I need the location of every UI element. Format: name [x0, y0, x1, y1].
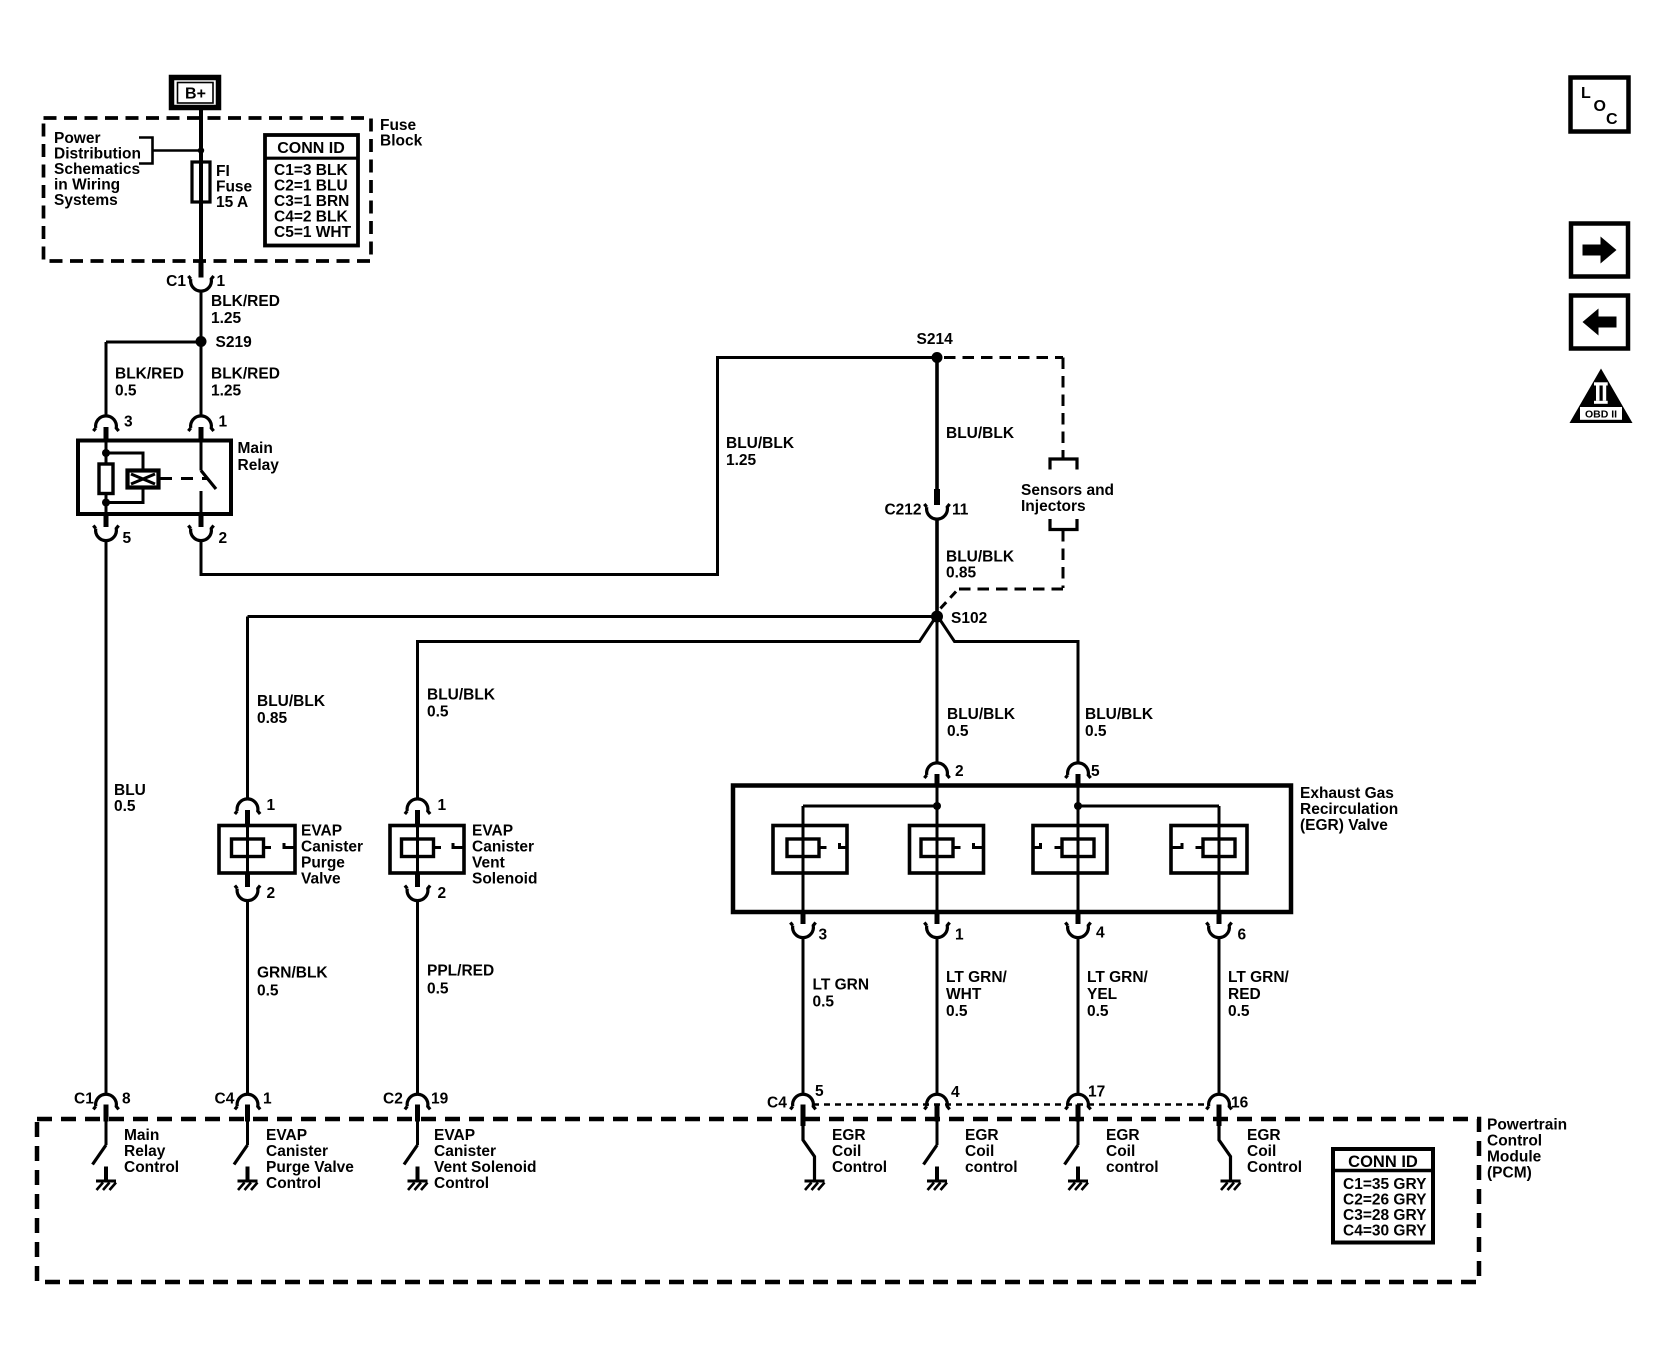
- svg-text:C5=1 WHT: C5=1 WHT: [274, 224, 352, 241]
- svg-text:Recirculation: Recirculation: [1300, 801, 1398, 818]
- svg-text:0.5: 0.5: [813, 994, 835, 1011]
- svg-text:Coil: Coil: [1106, 1143, 1135, 1160]
- svg-text:4: 4: [1096, 925, 1105, 942]
- svg-text:Control: Control: [1247, 1159, 1302, 1176]
- svg-text:3: 3: [819, 927, 828, 944]
- svg-text:4: 4: [951, 1084, 960, 1101]
- svg-text:Distribution: Distribution: [54, 146, 141, 163]
- svg-text:YEL: YEL: [1087, 986, 1117, 1003]
- svg-text:19: 19: [431, 1091, 449, 1108]
- svg-text:C1: C1: [74, 1091, 94, 1108]
- svg-text:WHT: WHT: [946, 986, 982, 1003]
- svg-text:3: 3: [124, 414, 133, 431]
- svg-text:FI: FI: [216, 163, 230, 180]
- svg-text:Canister: Canister: [266, 1143, 328, 1160]
- svg-text:C3=1 BRN: C3=1 BRN: [274, 193, 349, 210]
- svg-text:5: 5: [815, 1083, 824, 1100]
- svg-text:L: L: [1581, 85, 1591, 102]
- svg-text:EGR: EGR: [965, 1127, 999, 1144]
- svg-text:(EGR) Valve: (EGR) Valve: [1300, 817, 1388, 834]
- svg-text:Canister: Canister: [472, 839, 534, 856]
- svg-text:1: 1: [955, 927, 964, 944]
- svg-text:16: 16: [1231, 1095, 1249, 1112]
- svg-text:BLU/BLK: BLU/BLK: [946, 549, 1015, 566]
- svg-text:BLK/RED: BLK/RED: [211, 293, 280, 310]
- svg-text:C1=3 BLK: C1=3 BLK: [274, 162, 348, 179]
- svg-text:Valve: Valve: [301, 871, 341, 888]
- svg-text:EGR: EGR: [832, 1127, 866, 1144]
- svg-text:O: O: [1594, 98, 1606, 115]
- svg-text:C4: C4: [767, 1095, 787, 1112]
- svg-text:Power: Power: [54, 130, 101, 147]
- svg-text:1.25: 1.25: [211, 383, 242, 400]
- svg-text:1: 1: [219, 414, 228, 431]
- svg-text:BLU/BLK: BLU/BLK: [947, 706, 1016, 723]
- svg-text:2: 2: [219, 530, 228, 547]
- svg-text:Main: Main: [238, 440, 273, 457]
- svg-text:GRN/BLK: GRN/BLK: [257, 965, 328, 982]
- svg-text:BLK/RED: BLK/RED: [211, 366, 280, 383]
- svg-text:EVAP: EVAP: [472, 823, 513, 840]
- svg-text:2: 2: [438, 885, 447, 902]
- svg-text:Block: Block: [380, 133, 423, 150]
- svg-text:S219: S219: [216, 334, 253, 351]
- svg-text:Purge Valve: Purge Valve: [266, 1159, 354, 1176]
- svg-text:0.5: 0.5: [427, 981, 449, 998]
- svg-text:8: 8: [122, 1091, 131, 1108]
- svg-text:LT GRN/: LT GRN/: [946, 969, 1008, 986]
- svg-text:17: 17: [1088, 1084, 1105, 1101]
- svg-text:1.25: 1.25: [726, 452, 757, 469]
- svg-text:BLU/BLK: BLU/BLK: [946, 425, 1015, 442]
- svg-text:1: 1: [267, 797, 276, 814]
- svg-text:C3=28 GRY: C3=28 GRY: [1343, 1207, 1427, 1224]
- svg-text:LT GRN/: LT GRN/: [1228, 969, 1290, 986]
- svg-text:Canister: Canister: [301, 839, 363, 856]
- svg-text:Coil: Coil: [832, 1143, 861, 1160]
- svg-text:BLK/RED: BLK/RED: [115, 366, 184, 383]
- svg-text:0.85: 0.85: [946, 565, 977, 582]
- svg-text:LT GRN/: LT GRN/: [1087, 969, 1149, 986]
- svg-text:EVAP: EVAP: [434, 1127, 475, 1144]
- svg-text:5: 5: [1091, 763, 1100, 780]
- svg-text:0.5: 0.5: [1085, 723, 1107, 740]
- svg-text:Canister: Canister: [434, 1143, 496, 1160]
- svg-text:control: control: [965, 1159, 1018, 1176]
- svg-text:C: C: [1606, 111, 1618, 128]
- svg-text:0.5: 0.5: [114, 798, 136, 815]
- svg-text:OBD II: OBD II: [1585, 409, 1617, 421]
- svg-text:Exhaust Gas: Exhaust Gas: [1300, 785, 1394, 802]
- svg-text:BLU/BLK: BLU/BLK: [726, 435, 795, 452]
- svg-text:Relay: Relay: [124, 1143, 166, 1160]
- svg-text:Fuse: Fuse: [380, 117, 417, 134]
- svg-text:(PCM): (PCM): [1487, 1165, 1532, 1182]
- svg-text:11: 11: [952, 502, 969, 519]
- svg-text:Control: Control: [1487, 1133, 1542, 1150]
- svg-text:0.5: 0.5: [257, 983, 279, 1000]
- svg-text:Control: Control: [266, 1175, 321, 1192]
- svg-text:0.5: 0.5: [947, 723, 969, 740]
- svg-text:1: 1: [438, 797, 447, 814]
- svg-text:0.5: 0.5: [946, 1003, 968, 1020]
- svg-text:CONN ID: CONN ID: [1348, 1153, 1418, 1171]
- svg-text:C2=1 BLU: C2=1 BLU: [274, 178, 348, 195]
- svg-text:EVAP: EVAP: [301, 823, 342, 840]
- svg-text:1: 1: [263, 1091, 272, 1108]
- svg-text:Vent: Vent: [472, 855, 505, 872]
- svg-text:Main: Main: [124, 1127, 159, 1144]
- svg-text:EGR: EGR: [1247, 1127, 1281, 1144]
- svg-text:0.5: 0.5: [1087, 1003, 1109, 1020]
- svg-text:BLU: BLU: [114, 782, 146, 799]
- svg-text:BLU/BLK: BLU/BLK: [257, 693, 326, 710]
- svg-text:EVAP: EVAP: [266, 1127, 307, 1144]
- svg-text:C1=35 GRY: C1=35 GRY: [1343, 1176, 1427, 1193]
- svg-text:2: 2: [267, 885, 276, 902]
- svg-text:B+: B+: [185, 86, 206, 103]
- svg-text:RED: RED: [1228, 986, 1261, 1003]
- svg-text:2: 2: [955, 763, 964, 780]
- svg-text:0.5: 0.5: [1228, 1003, 1250, 1020]
- svg-text:LT GRN: LT GRN: [813, 977, 870, 994]
- svg-text:Systems: Systems: [54, 192, 118, 209]
- svg-text:0.85: 0.85: [257, 710, 288, 727]
- svg-text:Fuse: Fuse: [216, 179, 253, 196]
- svg-text:C2: C2: [383, 1091, 403, 1108]
- svg-text:0.5: 0.5: [115, 383, 137, 400]
- svg-text:Injectors: Injectors: [1021, 498, 1086, 515]
- svg-text:Vent Solenoid: Vent Solenoid: [434, 1159, 536, 1176]
- svg-text:BLU/BLK: BLU/BLK: [427, 687, 496, 704]
- svg-text:Powertrain: Powertrain: [1487, 1117, 1567, 1134]
- svg-text:CONN ID: CONN ID: [277, 140, 345, 157]
- svg-text:Module: Module: [1487, 1149, 1542, 1166]
- svg-text:BLU/BLK: BLU/BLK: [1085, 706, 1154, 723]
- svg-text:C212: C212: [884, 502, 921, 519]
- svg-text:PPL/RED: PPL/RED: [427, 963, 494, 980]
- svg-text:Control: Control: [434, 1175, 489, 1192]
- svg-text:C4: C4: [215, 1091, 235, 1108]
- svg-text:in Wiring: in Wiring: [54, 177, 120, 194]
- svg-text:C4=30 GRY: C4=30 GRY: [1343, 1223, 1427, 1240]
- svg-text:Solenoid: Solenoid: [472, 871, 537, 888]
- svg-text:EGR: EGR: [1106, 1127, 1140, 1144]
- svg-text:C1: C1: [166, 273, 186, 290]
- svg-text:Purge: Purge: [301, 855, 345, 872]
- svg-text:C2=26 GRY: C2=26 GRY: [1343, 1192, 1427, 1209]
- svg-text:control: control: [1106, 1159, 1159, 1176]
- svg-text:S214: S214: [917, 331, 954, 348]
- svg-text:0.5: 0.5: [427, 704, 449, 721]
- svg-text:Sensors and: Sensors and: [1021, 482, 1114, 499]
- svg-text:Control: Control: [832, 1159, 887, 1176]
- svg-text:Control: Control: [124, 1159, 179, 1176]
- svg-text:Relay: Relay: [238, 457, 280, 474]
- svg-text:5: 5: [123, 530, 132, 547]
- svg-text:Schematics: Schematics: [54, 161, 140, 178]
- svg-text:Coil: Coil: [1247, 1143, 1276, 1160]
- svg-text:Coil: Coil: [965, 1143, 994, 1160]
- svg-text:6: 6: [1238, 927, 1247, 944]
- svg-text:S102: S102: [951, 610, 987, 627]
- svg-text:1: 1: [217, 273, 226, 290]
- svg-text:1.25: 1.25: [211, 310, 242, 327]
- svg-text:15 A: 15 A: [216, 194, 248, 211]
- svg-text:C4=2 BLK: C4=2 BLK: [274, 209, 348, 226]
